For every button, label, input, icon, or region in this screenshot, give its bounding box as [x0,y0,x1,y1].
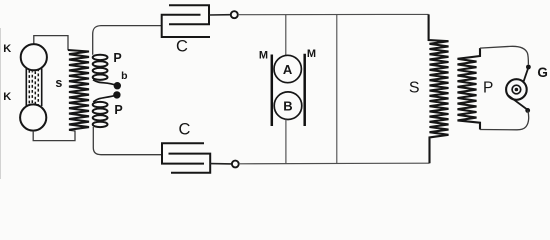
svg-text:A: A [283,62,293,77]
coil S (secondary zigzag winding) [429,14,449,163]
svg-text:K: K [3,43,11,55]
coil P2 (lower primary winding) [93,102,108,127]
svg-text:B: B [283,98,292,113]
wire: coil P1 to contact [93,80,117,86]
wire: C1 to terminal [209,14,231,16]
capacitor C2 (bottom) plate L [162,143,204,163]
plate M (left) [271,55,274,127]
galvanometer G outer coil [506,79,527,100]
wire: shunt link [336,15,338,164]
terminal dot (galvanometer top) [526,65,531,70]
ball A [274,55,301,82]
contact dot b2 (lower) [113,91,120,98]
capacitor C1 (top) plate A [169,5,209,24]
plate M (right) [303,54,306,126]
svg-text:K: K [3,91,11,103]
lead: dot to galvanometer coil [524,69,528,82]
contact dot b1 (upper) [114,82,121,89]
svg-text:S: S [409,79,420,96]
wire: bottom rail [239,162,430,165]
wire: receiver loop bottom [480,110,529,129]
wire: C2 to terminal [210,163,232,165]
svg-text:M: M [307,48,316,60]
coil P1 (upper primary winding) [93,55,108,80]
svg-text:C: C [176,38,188,56]
lead: galvanometer coil to bottom dot [508,95,527,109]
capacitor C1 plate B [162,15,210,37]
terminal circle (top) [231,11,238,18]
wire: primary bottom lead with corner [93,127,162,155]
wire: primary top lead with corner [93,26,162,55]
svg-text:C: C [179,121,191,139]
wire: bottom of spark-ball loop [33,130,75,140]
spark ball K2 (bottom) [20,104,46,130]
ball B [274,92,302,120]
svg-text:s: s [55,76,62,90]
wire: receiver loop top [480,46,528,64]
svg-text:M: M [259,49,268,61]
svg-text:P: P [483,80,493,97]
electrolyte hatch between K balls [26,68,41,106]
svg-text:P: P [113,51,121,65]
scan edge artifact [0,28,2,179]
terminal dot (galvanometer bottom) [525,108,530,113]
svg-text:G: G [537,65,548,80]
svg-text:b: b [121,70,127,82]
spark ball K1 (top) [21,44,47,70]
capacitor C2 plate R [169,154,211,173]
svg-text:P: P [114,103,122,117]
wire: top of spark-ball loop [34,36,68,51]
wire: top rail [238,13,429,15]
terminal circle (bottom) [232,161,239,168]
coil s (zigzag winding) [68,50,89,130]
galvanometer G inner ring [512,85,521,94]
wire: feed to ball A [285,15,287,56]
wire: contact to coil P2 [93,95,117,102]
galvanometer G centre dot [515,88,519,92]
wire: ball B to bottom rail [285,119,287,163]
coil P3 (receiver zigzag winding) [458,48,481,129]
